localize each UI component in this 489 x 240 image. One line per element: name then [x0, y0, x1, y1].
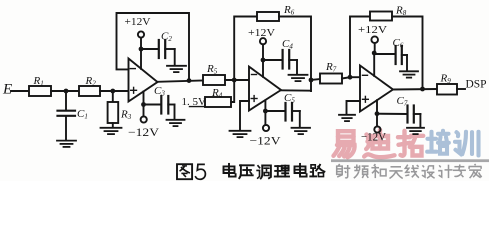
resistor R1 [29, 86, 51, 96]
wire R6 feedback loop [234, 17, 257, 81]
svg-text:C5: C5 [284, 92, 295, 105]
-12V supply U2 [264, 100, 266, 111]
ground for C6 [400, 71, 418, 77]
capacitor C2 [141, 48, 158, 50]
svg-text:R2: R2 [85, 75, 97, 88]
wire U2 output to R7 [281, 89, 311, 91]
ground for U2 input [230, 131, 251, 137]
wire U1 feedback loop [117, 13, 190, 81]
caption char 电 second [295, 164, 307, 177]
caption char 理 [275, 166, 289, 177]
op-amp U2 [249, 67, 281, 111]
capacitor C3 [144, 104, 161, 106]
svg-text:DSP: DSP [466, 77, 487, 91]
watermark tagline 天 [389, 167, 402, 179]
wire U3 non-inverting input to ground [347, 101, 361, 115]
watermark tagline 计 [438, 165, 452, 178]
svg-text:C2: C2 [161, 31, 172, 44]
ground for C5 [292, 128, 311, 134]
caption char 图 [177, 164, 192, 179]
caption char 调 [257, 166, 271, 179]
watermark tagline 和 [371, 164, 386, 178]
ground for C2 [167, 66, 186, 72]
caption char 电 [224, 164, 236, 177]
node U1 output junction [187, 78, 192, 83]
wire R2 to op-amp U1 [100, 90, 129, 92]
wire R9 to DSP [457, 88, 465, 90]
svg-text:R3: R3 [120, 109, 132, 122]
svg-text:R6: R6 [283, 4, 295, 17]
watermark logo char 迪 [364, 130, 394, 157]
watermark logo char 培 [427, 131, 449, 154]
ground for R3 [101, 128, 122, 134]
watermark tagline 专 [453, 165, 466, 178]
svg-text:E: E [2, 82, 12, 98]
ground for U3 input [339, 115, 355, 121]
svg-text:+12V: +12V [248, 27, 275, 39]
resistor R9 [437, 84, 457, 95]
svg-text:C1: C1 [77, 108, 88, 121]
wire R4 to summing junction [231, 80, 234, 102]
watermark tagline 家 [469, 164, 482, 178]
wire E to R1 [11, 90, 29, 92]
svg-text:+12V: +12V [125, 16, 151, 28]
capacitor C7 [377, 113, 407, 115]
watermark logo char 拓 [398, 131, 423, 156]
caption char 5 [196, 164, 206, 179]
resistor R8 [370, 12, 392, 21]
svg-text:−12V: −12V [250, 136, 282, 148]
wire R5 to U2 inverting input [225, 79, 249, 81]
svg-text:R4: R4 [211, 87, 223, 100]
capacitor C6 [374, 53, 395, 55]
node summing junction U2 [232, 78, 237, 83]
svg-text:R8: R8 [395, 5, 407, 18]
node summing junction U3 [348, 75, 353, 80]
ground for C4 [289, 75, 308, 81]
capacitor C5 [265, 110, 284, 112]
resistor R7 [320, 74, 342, 84]
-12V supply U3 [376, 100, 378, 114]
svg-text:C4: C4 [282, 38, 293, 51]
watermark tagline 频 [354, 165, 369, 179]
capacitor C4 [263, 59, 282, 61]
capacitor C1 [65, 91, 67, 110]
svg-text:C6: C6 [393, 37, 404, 50]
resistor R2 [79, 86, 100, 96]
wire R7 to U3 inverting input [342, 77, 350, 78]
watermark tagline 线 [405, 165, 419, 178]
resistor R6 [257, 12, 279, 21]
svg-text:R9: R9 [440, 73, 452, 86]
node junction C1 tap [64, 89, 69, 94]
ground for C3 [167, 120, 185, 126]
resistor R5 [203, 75, 225, 85]
wire R8 feedback loop [350, 17, 370, 78]
watermark tagline 射 [337, 164, 351, 178]
wire U2 non-inverting input to ground [240, 101, 249, 131]
node junction R3 tap [110, 89, 115, 94]
-12V supply U1 [143, 92, 145, 105]
watermark tagline 设 [422, 165, 435, 178]
svg-text:−12V: −12V [128, 127, 160, 139]
ground for C1 [57, 141, 76, 147]
watermark logo char 训 [455, 132, 479, 156]
op-amp U1 [129, 59, 158, 102]
ground for C7 [407, 128, 424, 134]
wire R8 to output rail [392, 17, 423, 90]
resistor R4 [205, 97, 231, 107]
watermark rule line [331, 159, 489, 162]
wire U3 output to R9 [393, 88, 437, 91]
svg-text:R1: R1 [33, 75, 44, 88]
resistor R3 [112, 91, 114, 102]
node U3 output junction [420, 87, 425, 92]
op-amp U3 [360, 66, 393, 112]
svg-text:−12V: −12V [361, 132, 387, 144]
wire U1 output to R5 [158, 81, 204, 82]
svg-text:R7: R7 [325, 61, 337, 74]
svg-text:+12V: +12V [358, 24, 387, 36]
svg-text:C7: C7 [397, 95, 408, 108]
wire R1 to R2 [51, 90, 79, 92]
node U2 output junction [309, 78, 314, 83]
svg-text:R5: R5 [206, 63, 218, 76]
caption char 路 [310, 165, 324, 177]
wire R6 to output rail [279, 17, 311, 92]
caption char 压 [239, 165, 253, 178]
svg-text:C3: C3 [154, 85, 165, 98]
watermark logo char 易 [334, 131, 355, 157]
